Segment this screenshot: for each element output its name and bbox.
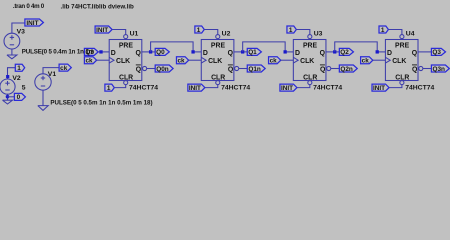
svg-text:0: 0 [17, 94, 21, 101]
svg-text:Q3: Q3 [85, 49, 94, 56]
U3 PRE bubble [308, 35, 312, 39]
voltage source V1 [35, 74, 51, 90]
svg-text:PRE: PRE [395, 43, 410, 50]
wire U3 Qbar output [331, 68, 340, 70]
wire U4 CLK [373, 59, 386, 61]
svg-text:D: D [295, 50, 300, 57]
svg-text:Q: Q [228, 50, 234, 57]
net flag 1 (U3 PRE) [287, 26, 296, 33]
svg-text:CLK: CLK [208, 58, 222, 65]
svg-text:ck: ck [60, 65, 68, 72]
svg-text:Q1n: Q1n [248, 66, 261, 73]
svg-text:ck: ck [270, 57, 278, 64]
wire U3 PRE [296, 30, 310, 35]
net flag 0 (V2 bottom) [14, 93, 25, 100]
bypass wire Q1 to next D [243, 42, 285, 52]
flip-flop U4 box [385, 40, 418, 81]
svg-text:D: D [111, 50, 116, 57]
svg-text:1: 1 [17, 65, 21, 72]
svg-text:INIT: INIT [281, 85, 293, 92]
svg-text:Q3n: Q3n [432, 66, 445, 73]
svg-text:PRE: PRE [119, 43, 134, 50]
net flag Q3n [431, 65, 449, 72]
svg-text:1: 1 [289, 27, 293, 34]
svg-text:74HCT74: 74HCT74 [221, 85, 250, 92]
svg-text:U1: U1 [130, 31, 139, 38]
wire U3 Q output [326, 51, 339, 53]
svg-text:D: D [203, 50, 208, 57]
svg-text:.tran 0 4m 0: .tran 0 4m 0 [13, 3, 45, 10]
wire U4 CLR [389, 85, 402, 88]
wire U2 D input [193, 51, 201, 53]
wire U4 Q output [418, 51, 431, 53]
junction U1 D [99, 50, 102, 53]
wire U2 PRE [204, 30, 218, 35]
U4 PRE bubble [400, 35, 404, 39]
wire U2 CLR [205, 85, 218, 88]
voltage source V2 [0, 79, 15, 94]
ground (V1) [38, 106, 48, 111]
U1 clock wedge [109, 57, 114, 63]
flip-flop U2 box [201, 40, 234, 81]
svg-text:V3: V3 [17, 29, 26, 36]
net flag Q1n [247, 65, 265, 72]
svg-text:INIT: INIT [96, 27, 108, 34]
svg-text:Q: Q [320, 66, 326, 73]
junction U3 D [283, 50, 286, 53]
svg-text:Q2n: Q2n [340, 66, 353, 73]
svg-text:INIT: INIT [373, 85, 385, 92]
wire to flag 0 [8, 96, 15, 98]
net flag ck (U4 CLK) [361, 57, 373, 64]
svg-text:V2: V2 [12, 75, 21, 82]
svg-text:Q: Q [320, 50, 326, 57]
net flag INIT (V3) [25, 19, 44, 26]
svg-text:Q: Q [228, 66, 234, 73]
U1 Qbar bubble [143, 66, 147, 70]
svg-text:CLK: CLK [300, 58, 314, 65]
net flag Q3 [431, 48, 445, 55]
bypass wire Q2 to next D [335, 42, 377, 52]
wire U3 CLK [281, 59, 294, 61]
junction V2 bottom [6, 95, 10, 99]
wire U1 PRE [112, 30, 126, 35]
net flag Q2n [339, 65, 357, 72]
net flag Q0n [155, 65, 173, 72]
svg-text:.lib 74HCT.liblib dview.lib: .lib 74HCT.liblib dview.lib [61, 3, 135, 10]
svg-text:ck: ck [178, 57, 186, 64]
wire U4 PRE [388, 30, 402, 35]
ground (V2) [3, 100, 13, 104]
net flag 1 (U4 PRE) [379, 26, 388, 33]
U1 PRE bubble [124, 35, 128, 39]
wire V3 top to INIT flag [12, 23, 25, 33]
svg-text:1: 1 [381, 27, 385, 34]
svg-text:Q: Q [412, 66, 418, 73]
wire V1 top to flag ck [43, 68, 59, 74]
wire U1 Qbar output [147, 68, 156, 70]
svg-text:74HCT74: 74HCT74 [129, 85, 158, 92]
svg-text:Q3: Q3 [432, 49, 441, 56]
U4 CLR bubble [400, 81, 404, 85]
svg-text:INIT: INIT [189, 85, 201, 92]
junction U1 Q [149, 50, 152, 53]
net flag Q0 [155, 48, 169, 55]
junction U3 Q [333, 50, 336, 53]
svg-text:74HCT74: 74HCT74 [405, 85, 434, 92]
svg-text:ck: ck [362, 57, 370, 64]
wire U2 Qbar output [239, 68, 248, 70]
svg-text:CLK: CLK [392, 58, 406, 65]
svg-text:Q: Q [412, 50, 418, 57]
svg-text:PULSE(0 5 0.5m 1n 1n 0.5m 1m 1: PULSE(0 5 0.5m 1n 1n 0.5m 1m 18) [50, 99, 152, 106]
svg-text:U4: U4 [406, 31, 415, 38]
U3 Qbar bubble [327, 66, 331, 70]
wire V1 bottom to ground [42, 90, 44, 105]
U4 clock wedge [385, 57, 390, 63]
svg-text:PRE: PRE [211, 43, 226, 50]
net flag ck (V1) [59, 64, 71, 71]
svg-text:1: 1 [107, 85, 111, 92]
svg-text:ck: ck [85, 57, 93, 64]
net flag Q1 [247, 48, 261, 55]
svg-text:Q2: Q2 [340, 49, 349, 56]
flip-flop U3 box [293, 40, 326, 81]
wire U1 Q output [142, 51, 155, 53]
wire U3 CLR [297, 85, 310, 88]
net flag INIT (U4 CLR) [372, 84, 389, 91]
wire U1 D input [101, 51, 109, 53]
net flag ck (U2 CLK) [176, 57, 188, 64]
wire U1 CLK [97, 59, 110, 61]
bypass wire Q0 to next D [151, 42, 193, 52]
U3 CLR bubble [308, 81, 312, 85]
svg-text:1: 1 [197, 27, 201, 34]
net flag 1 (V2) [15, 64, 24, 71]
U1 CLR bubble [124, 81, 128, 85]
svg-text:Q1: Q1 [248, 49, 257, 56]
voltage source V3 [4, 33, 20, 49]
wire V3 bottom to ground [11, 49, 13, 55]
wire V2 top to flag 1 [8, 68, 16, 79]
net flag INIT (U3 CLR) [280, 84, 297, 91]
wire U2 CLK [189, 59, 202, 61]
svg-text:5: 5 [22, 85, 26, 92]
wire Q3 flag to junction [98, 51, 101, 53]
svg-text:PULSE(0 5 0.4m 1n 1n 1m: PULSE(0 5 0.4m 1n 1n 1m [22, 49, 95, 56]
flip-flop U1 box [109, 40, 142, 81]
U3 clock wedge [293, 57, 298, 63]
U2 PRE bubble [216, 35, 220, 39]
net flag ck (U1 CLK) [84, 57, 96, 64]
net flag Q3 (U1 D) [84, 48, 98, 55]
svg-text:Q0n: Q0n [156, 66, 169, 73]
svg-text:U2: U2 [222, 31, 231, 38]
svg-text:V1: V1 [48, 71, 57, 78]
U2 Qbar bubble [235, 66, 239, 70]
svg-text:Q: Q [136, 50, 142, 57]
wire V2 bottom [7, 94, 9, 100]
net flag INIT (U2 CLR) [188, 84, 205, 91]
U2 clock wedge [201, 57, 206, 63]
wire U4 Qbar output [423, 68, 432, 70]
net flag 1 (U1 CLR) [105, 84, 114, 91]
svg-text:PRE: PRE [303, 43, 318, 50]
U2 CLR bubble [216, 81, 220, 85]
svg-text:D: D [387, 50, 392, 57]
junction U2 D [191, 50, 194, 53]
net flag ck (U3 CLK) [269, 57, 281, 64]
wire U1 CLR [114, 85, 125, 88]
svg-text:U3: U3 [314, 31, 323, 38]
junction V2 top [6, 75, 9, 78]
junction U2 Q [241, 50, 244, 53]
svg-text:74HCT74: 74HCT74 [313, 85, 342, 92]
ground (V3) [7, 55, 17, 59]
U4 Qbar bubble [419, 66, 423, 70]
wire U2 Q output [234, 51, 247, 53]
net flag Q2 [339, 48, 353, 55]
svg-text:Q: Q [136, 66, 142, 73]
net flag 1 (U2 PRE) [195, 26, 204, 33]
svg-text:CLK: CLK [116, 58, 130, 65]
svg-text:Q0: Q0 [156, 49, 165, 56]
junction U4 D [376, 50, 379, 53]
svg-text:INIT: INIT [26, 20, 38, 27]
wire U3 D input [285, 51, 293, 53]
net flag INIT (U1 PRE) [95, 26, 112, 33]
wire U4 D input [377, 51, 385, 53]
